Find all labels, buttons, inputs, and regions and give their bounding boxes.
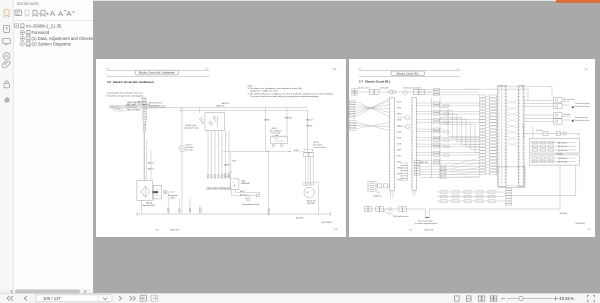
svg-text:AC-2698E-1: AC-2698E-1 [322,221,332,224]
svg-text:4-6: 4-6 [106,68,110,70]
svg-text:(1) Data, Adjustment and Check: (1) Data, Adjustment and Checks [32,36,93,41]
svg-text:(4-cylinder equipped engine): (4-cylinder equipped engine) [415,222,438,224]
svg-text:switch: switch [170,196,175,199]
svg-text:(Thermostat control): (Thermostat control) [241,202,258,205]
svg-text:fan relay: fan relay [185,148,192,151]
svg-text:(C) Fuse box: (C) Fuse box [558,149,567,151]
svg-text:(49-000): (49-000) [557,153,563,155]
svg-text:Foreword: Foreword [32,30,50,35]
svg-text:GAE30: GAE30 [305,124,311,127]
svg-text:p 5 1 2: p 5 1 2 [168,191,174,193]
svg-text:4P03: 4P03 [232,160,236,162]
svg-text:(A-C/4h): (A-C/4h) [307,202,315,205]
svg-text:(B) Fuse box: (B) Fuse box [558,146,567,148]
svg-text:4-7: 4-7 [359,68,363,70]
svg-text:4-6: 4-6 [334,229,338,231]
svg-text:SAE1.25R: SAE1.25R [221,101,230,104]
svg-text:4P03: 4P03 [397,113,401,115]
svg-text:GAE1.25B: GAE1.25B [420,161,428,164]
svg-text:Travel alarm (option): Travel alarm (option) [575,101,590,104]
svg-text:(4B-0000): (4B-0000) [560,212,568,214]
svg-text:4-6 Electric Circuit (Air co: 4-6 Electric Circuit (Air conditioner) [107,79,154,83]
svg-text:4-7: 4-7 [588,229,592,231]
svg-text:● marks for wiring harness and: ● marks for wiring harness and diagram [106,94,143,97]
svg-text:(1) Battery: (1) Battery [373,194,381,197]
svg-text:(1) Main switch: (1) Main switch [358,86,370,89]
svg-text:4P-13 harness (4-13): 4P-13 harness (4-13) [404,87,421,89]
svg-text:The other visual face to main: The other visual face to main with tips … [250,95,319,98]
svg-text:4P02: 4P02 [397,107,401,109]
svg-text:SAE2B: SAE2B [224,163,229,166]
svg-text:AB 1 2 (3+...): AB 1 2 (3+...) [240,193,250,196]
svg-text:4P06: 4P06 [294,149,298,151]
svg-text:(A) Fuse box: (A) Fuse box [558,141,567,144]
svg-text:GAE1.25B SAE2B: GAE1.25B SAE2B [126,108,141,111]
svg-text:49.81%: 49.81% [559,296,574,301]
svg-text:SAE1.25: SAE1.25 [147,161,153,164]
svg-text:4P13: 4P13 [397,173,401,175]
svg-text:(C) Horn: (C) Horn [536,129,543,132]
svg-text:AA 4 2: AA 4 2 [240,190,245,193]
svg-text:SAE1.25: SAE1.25 [305,118,312,121]
svg-text:4P04: 4P04 [397,119,401,121]
svg-text:4P10: 4P10 [397,155,401,157]
svg-text:4P08: 4P08 [397,143,401,145]
svg-text:(2) Fusible: (2) Fusible [380,87,389,89]
svg-text:KA-26699-1_21-35: KA-26699-1_21-35 [26,23,62,28]
svg-text:SAE30: SAE30 [264,118,270,121]
svg-text:Note:: Note: [247,84,253,87]
svg-text:equipment + 700A crane unit).: equipment + 700A crane unit). [250,89,278,92]
svg-text:4P08: 4P08 [141,98,145,100]
svg-text:4P05 4P06 4P07: 4P05 4P06 4P07 [149,102,162,104]
svg-text:(A) Slow blow fuse: (A) Slow blow fuse [394,214,409,217]
svg-text:4P06: 4P06 [397,131,401,133]
svg-text:(A) 1/4W: (A) 1/4W [296,216,304,219]
svg-text:KA250-00: KA250-00 [241,181,249,184]
svg-text:Electric Circuit (Air Conditio: Electric Circuit (Air Conditioner) [138,70,174,74]
svg-text:SAE30B: SAE30B [284,116,292,119]
svg-text:2-7 Electric Circuit (FL): 2-7 Electric Circuit (FL) [359,79,390,83]
svg-text:4P07: 4P07 [397,137,401,139]
svg-text:adjustment relays: adjustment relays [184,126,199,129]
svg-text:4P11: 4P11 [397,161,401,163]
svg-text:KA-2580E-1: KA-2580E-1 [576,221,586,224]
svg-text:Wiring harness front: Wiring harness front [575,119,590,122]
svg-text:4P08 4P09: 4P08 4P09 [137,101,145,103]
svg-text:4P05: 4P05 [397,125,401,127]
svg-text:(D) Fuse box: (D) Fuse box [558,158,567,160]
svg-text:4P14: 4P14 [397,179,401,181]
svg-text:selector switch: selector switch [313,145,325,148]
svg-text:KA-25 696: KA-25 696 [170,228,179,231]
svg-text:M: M [306,191,308,194]
svg-text:(E) Fuse box: (E) Fuse box [558,161,567,163]
svg-text:4P01: 4P01 [397,101,401,103]
svg-text:(4-C): (4-C) [246,200,250,202]
svg-text:4-7: 4-7 [457,68,461,70]
svg-text:KA-25 696: KA-25 696 [425,228,434,231]
svg-text:(A) Travel alarm: (A) Travel alarm [564,97,576,100]
svg-text:Wiring harness lamp: Wiring harness lamp [575,105,590,107]
svg-text:4-6: 4-6 [204,68,208,70]
svg-text:4-7: 4-7 [409,229,413,231]
svg-text:4-6: 4-6 [333,68,337,70]
svg-text:(1): (1) [378,191,381,193]
svg-text:4-6: 4-6 [155,229,159,231]
svg-text:(+B): (+B) [577,133,581,135]
svg-text:(B) Starter: (B) Starter [564,113,572,116]
svg-text:The dot-dash lines show the co: The dot-dash lines show the connector [107,91,143,94]
svg-text:4P09: 4P09 [397,149,401,151]
svg-text:4-7: 4-7 [585,68,589,70]
svg-text:GAE1.25: GAE1.25 [147,167,154,170]
svg-text:Electric Circuit (FL): Electric Circuit (FL) [397,71,419,75]
svg-text:Capacitor 50W: Capacitor 50W [142,204,155,207]
svg-text:2. The vehicle without air con: 2. The vehicle without air conditioner h… [247,92,333,95]
svg-text:(2) System Diagrams: (2) System Diagrams [32,42,71,47]
svg-text:4P12: 4P12 [397,167,401,169]
svg-text:Swing alarm lamp: Swing alarm lamp [575,117,588,119]
svg-text:100 / 137: 100 / 137 [43,296,62,301]
